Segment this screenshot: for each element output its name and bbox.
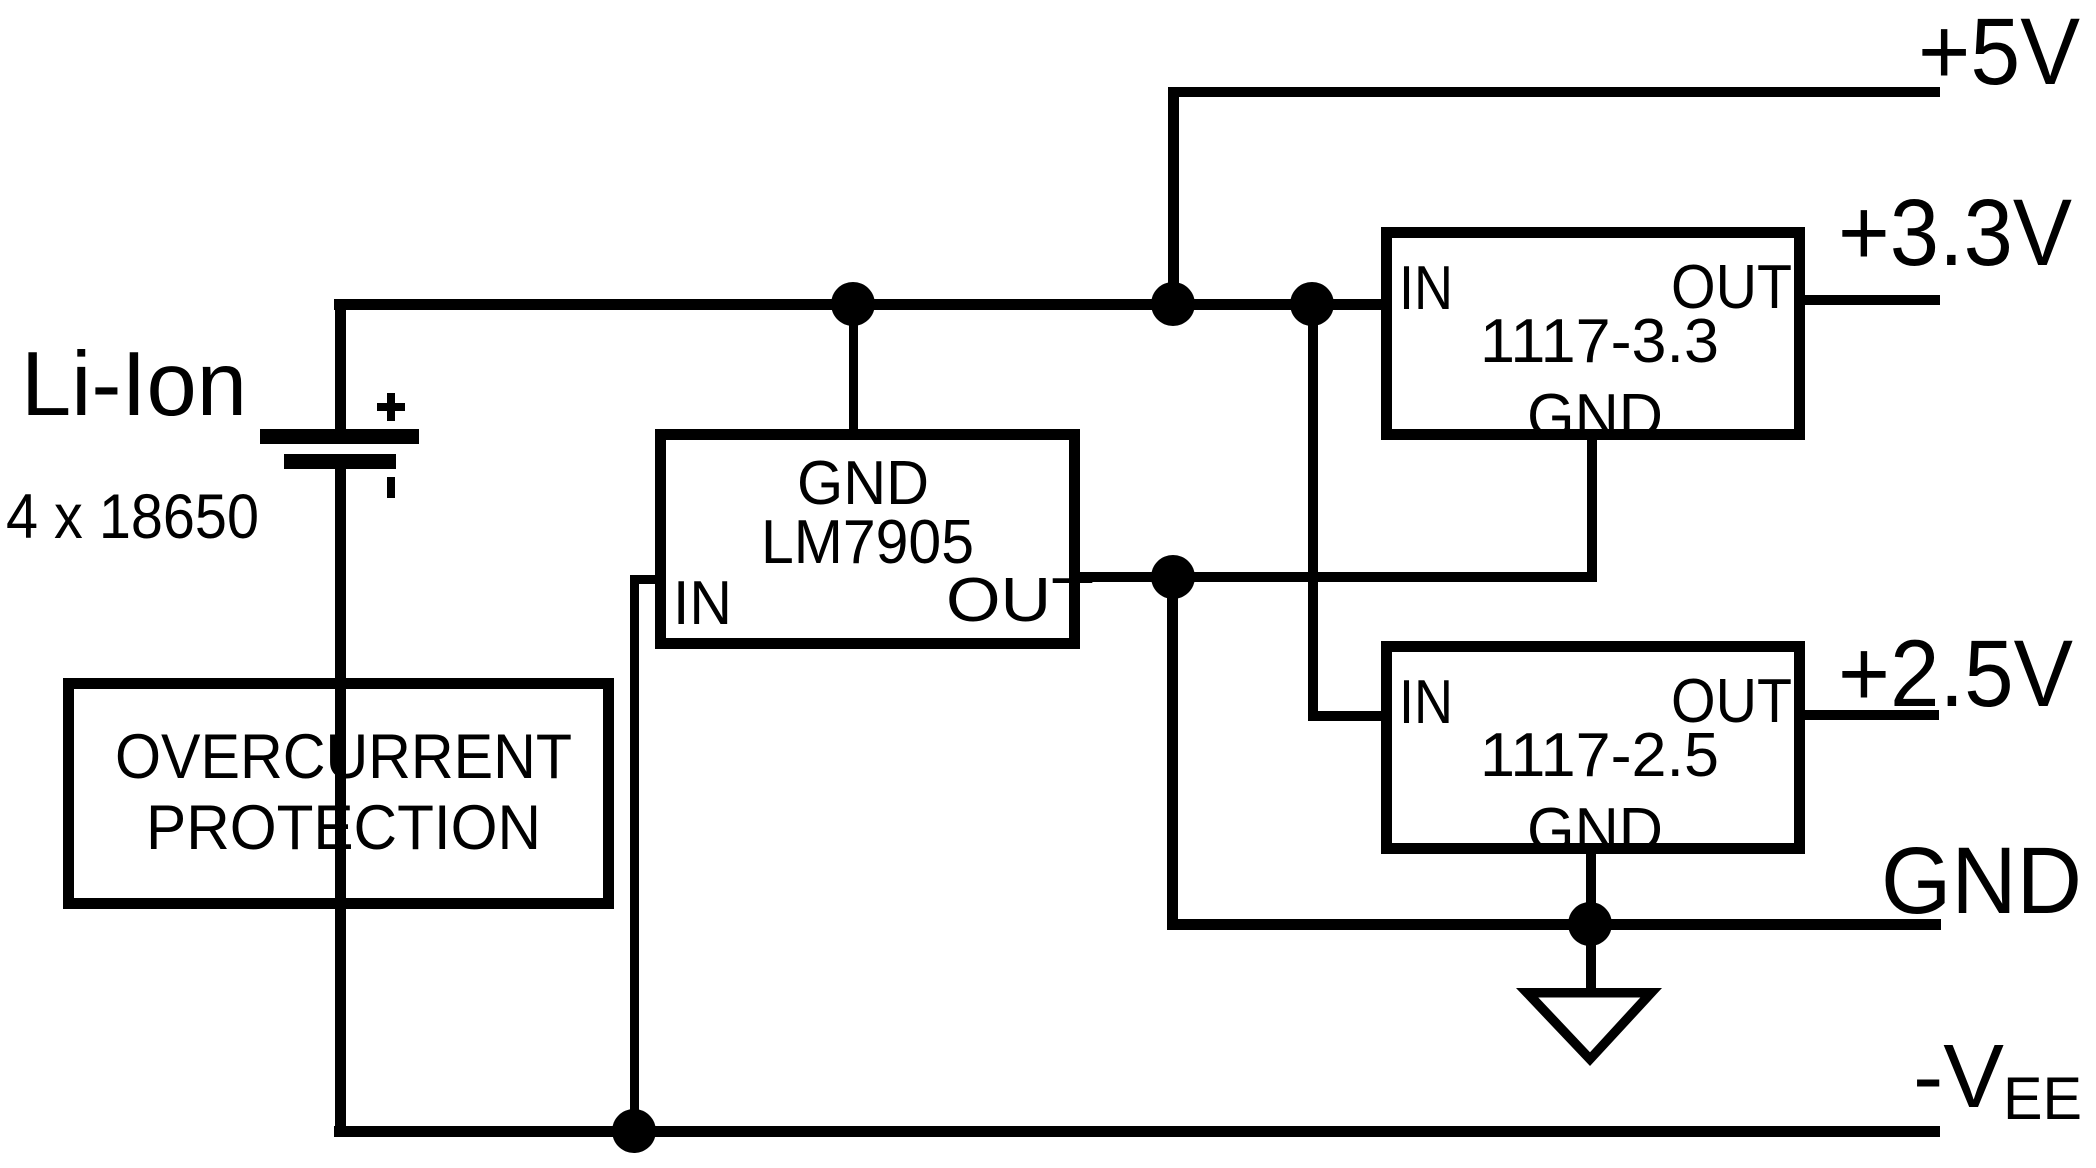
svg-text:OVERCURRENT: OVERCURRENT [115, 722, 572, 792]
svg-text:-V: -V [1913, 1027, 2004, 1127]
svg-text:+3.3V: +3.3V [1838, 180, 2072, 286]
svg-text:PROTECTION: PROTECTION [146, 793, 541, 863]
svg-text:IN: IN [1399, 254, 1453, 323]
svg-text:GND: GND [1527, 382, 1663, 451]
svg-text:4 x 18650: 4 x 18650 [6, 482, 259, 552]
svg-text:EE: EE [2003, 1065, 2082, 1132]
svg-text:1117-3.3: 1117-3.3 [1480, 307, 1719, 376]
svg-text:LM7905: LM7905 [761, 508, 974, 577]
svg-text:+5V: +5V [1918, 0, 2080, 105]
svg-text:Li-Ion: Li-Ion [21, 334, 247, 435]
svg-text:+2.5V: +2.5V [1838, 621, 2073, 727]
svg-text:GND: GND [1527, 796, 1663, 865]
svg-text:1117-2.5: 1117-2.5 [1480, 721, 1719, 790]
svg-text:IN: IN [1399, 668, 1453, 737]
svg-text:GND: GND [1881, 828, 2082, 934]
svg-text:IN: IN [673, 569, 732, 638]
svg-text:OUT: OUT [946, 566, 1094, 635]
